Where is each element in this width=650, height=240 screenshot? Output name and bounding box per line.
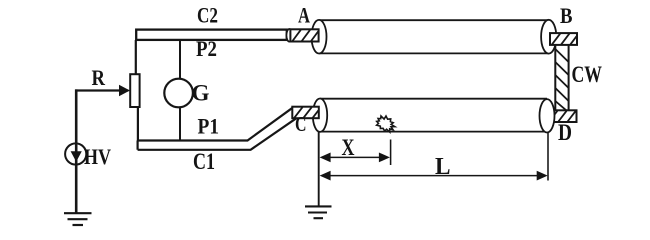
electrode rod C (hatched) bbox=[292, 107, 319, 119]
svg-text:X: X bbox=[342, 135, 355, 160]
plate C2/P2 (top bar) bbox=[136, 30, 287, 40]
wiper arrow of R bbox=[119, 85, 130, 97]
voltage source HV bbox=[65, 143, 86, 164]
ground (tube C) bbox=[305, 205, 332, 207]
svg-text:CW: CW bbox=[572, 62, 603, 87]
svg-text:D: D bbox=[558, 120, 572, 145]
wire (tube C to ground) bbox=[318, 132, 320, 206]
electrode rod B (hatched) bbox=[550, 33, 577, 45]
plate C1/P1 (bottom bar with bend) bbox=[138, 108, 297, 150]
tick at X end bbox=[390, 140, 392, 166]
wire (left vertical, HV branch) bbox=[75, 89, 78, 213]
rod end cap at A bbox=[286, 29, 292, 42]
svg-text:C2: C2 bbox=[197, 3, 218, 28]
wire (R to bottom plate) bbox=[137, 107, 139, 141]
dimension X bbox=[329, 156, 380, 158]
dimension L bbox=[329, 175, 538, 177]
svg-text:C: C bbox=[295, 112, 307, 136]
drift tube AB (top cylinder) bbox=[319, 19, 549, 21]
svg-text:P2: P2 bbox=[196, 36, 217, 61]
svg-text:B: B bbox=[560, 3, 573, 28]
galvanometer G bbox=[164, 79, 193, 108]
drift tube CD (bottom cylinder) bbox=[320, 98, 547, 100]
extension line below D bbox=[547, 133, 549, 181]
svg-text:P1: P1 bbox=[198, 114, 220, 139]
wire (top plate to R) bbox=[135, 40, 137, 74]
svg-text:C1: C1 bbox=[193, 149, 215, 174]
svg-text:R: R bbox=[92, 65, 106, 90]
electrode rod A (hatched) bbox=[290, 29, 318, 41]
ground (HV source) bbox=[64, 212, 92, 214]
svg-text:L: L bbox=[435, 154, 451, 180]
wire (G to bottom plate) bbox=[179, 107, 181, 141]
wire (HV to R wiper, horizontal) bbox=[75, 89, 120, 91]
svg-text:A: A bbox=[298, 3, 310, 28]
ionization starburst bbox=[377, 116, 395, 132]
electrode rod D (hatched) bbox=[547, 110, 576, 122]
converter wall CW (vertical hatched bar) bbox=[555, 43, 568, 113]
svg-text:HV: HV bbox=[84, 144, 111, 169]
svg-text:G: G bbox=[192, 81, 210, 106]
wire (top plate to G) bbox=[179, 41, 181, 79]
resistor R body bbox=[130, 74, 139, 107]
